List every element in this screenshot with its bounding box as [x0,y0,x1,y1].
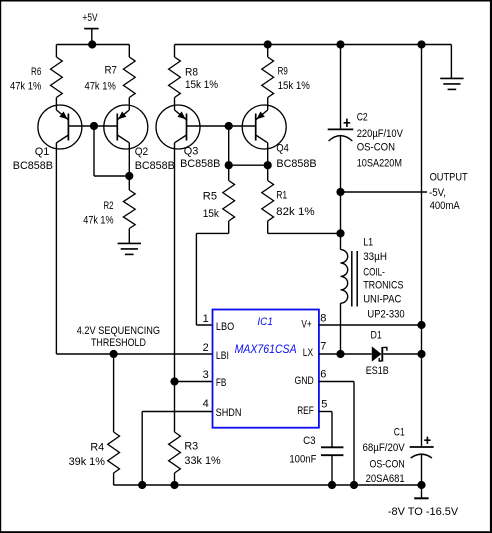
svg-text:15k 1%: 15k 1% [185,79,218,91]
svg-text:400mA: 400mA [430,200,461,212]
svg-text:GND: GND [295,375,314,387]
svg-text:R6: R6 [31,66,41,78]
svg-text:MAX761CSA: MAX761CSA [235,342,297,356]
svg-text:10SA220M: 10SA220M [357,157,402,169]
svg-text:+5V: +5V [83,12,98,24]
svg-text:R5: R5 [203,191,217,203]
svg-text:C2: C2 [357,111,368,123]
svg-text:C1: C1 [394,426,405,438]
svg-text:BC858B: BC858B [180,158,220,170]
svg-text:R7: R7 [105,65,118,77]
svg-text:82k 1%: 82k 1% [276,206,315,218]
svg-text:6: 6 [320,368,326,380]
svg-text:ES1B: ES1B [366,365,389,377]
svg-text:Q2: Q2 [135,146,149,158]
svg-text:33µH: 33µH [363,251,387,263]
svg-text:Q3: Q3 [184,145,199,157]
svg-text:IC1: IC1 [257,316,273,328]
svg-text:L1: L1 [363,237,373,249]
svg-text:220µF/10V: 220µF/10V [357,128,404,140]
svg-text:2: 2 [203,342,209,354]
svg-text:BC858B: BC858B [13,160,53,172]
svg-text:-8V TO -16.5V: -8V TO -16.5V [388,506,459,518]
svg-text:REF: REF [297,405,314,417]
svg-text:5: 5 [321,399,327,411]
svg-text:SHDN: SHDN [216,407,242,419]
svg-text:OUTPUT: OUTPUT [430,172,468,184]
svg-text:LBO: LBO [216,321,235,333]
svg-text:20SA681: 20SA681 [366,473,405,485]
svg-text:47k 1%: 47k 1% [85,81,116,93]
svg-text:C3: C3 [303,435,316,447]
svg-text:33k 1%: 33k 1% [184,455,221,467]
svg-text:R3: R3 [184,441,198,453]
svg-text:UP2-330: UP2-330 [367,309,404,321]
svg-text:UNI-PAC: UNI-PAC [363,293,401,305]
svg-text:LBI: LBI [216,350,229,362]
svg-text:1: 1 [203,313,209,325]
svg-text:Q1: Q1 [35,146,50,158]
svg-text:BC858B: BC858B [135,160,175,172]
svg-text:Q4: Q4 [276,143,288,155]
svg-text:COIL-: COIL- [363,266,385,278]
svg-text:OS-CON: OS-CON [357,141,395,153]
svg-text:4.2V SEQUENCING: 4.2V SEQUENCING [77,325,160,337]
svg-text:47k 1%: 47k 1% [83,215,113,227]
svg-text:R9: R9 [278,66,288,78]
svg-text:3: 3 [203,369,209,381]
svg-text:V+: V+ [301,318,311,330]
svg-text:47k 1%: 47k 1% [10,81,41,93]
svg-text:100nF: 100nF [289,454,316,466]
svg-text:TRONICS: TRONICS [363,280,403,292]
svg-text:FB: FB [216,377,227,389]
svg-text:R1: R1 [276,189,287,201]
svg-text:R2: R2 [104,200,114,212]
svg-text:7: 7 [320,340,326,352]
svg-text:15k: 15k [203,208,220,220]
svg-text:THRESHOLD: THRESHOLD [91,337,146,349]
svg-text:68µF/20V: 68µF/20V [363,442,406,454]
svg-text:-5V,: -5V, [429,187,446,199]
svg-text:D1: D1 [371,329,382,341]
svg-text:LX: LX [303,347,314,359]
svg-text:39k 1%: 39k 1% [69,456,106,468]
svg-text:4: 4 [203,398,209,410]
svg-text:8: 8 [320,313,326,325]
svg-text:R4: R4 [90,441,104,453]
svg-text:R8: R8 [185,66,198,78]
svg-text:BC858B: BC858B [276,158,316,170]
svg-text:15k 1%: 15k 1% [278,80,310,92]
svg-text:OS-CON: OS-CON [370,459,405,471]
